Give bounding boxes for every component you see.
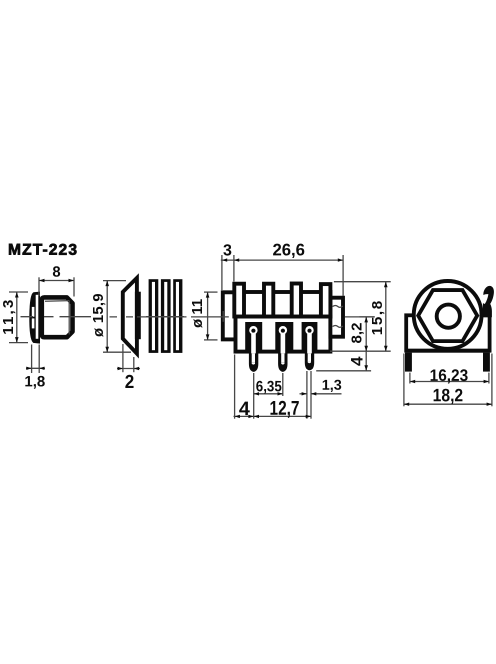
- svg-text:ø 15,9: ø 15,9: [91, 293, 107, 337]
- slot 1 slit: [251, 333, 256, 354]
- rear bushing thread mark upper: [333, 306, 343, 308]
- ring bar 3: [173, 279, 182, 353]
- svg-text:ø 11: ø 11: [189, 299, 206, 328]
- svg-text:4: 4: [239, 398, 250, 420]
- rear bushing: [330, 298, 343, 337]
- dimension 8,2 (center to bottom): [359, 317, 374, 351]
- slot 2 hole: [279, 326, 287, 334]
- nut flange white slit: [36, 295, 39, 339]
- bottom line over circle: [406, 349, 489, 353]
- dimension 8 (nut width): [39, 277, 74, 296]
- dimension 18,2: [404, 354, 492, 407]
- svg-text:26,6: 26,6: [272, 240, 305, 259]
- centerline right segment: [345, 316, 375, 318]
- nut chamfer line top: [45, 300, 70, 303]
- rear bushing thread mark lower: [333, 326, 343, 328]
- nut chamfer line right: [68, 301, 70, 335]
- contact slot 2: [275, 322, 293, 353]
- svg-text:4: 4: [347, 356, 366, 366]
- VIEW 5: front view body rectangle: [406, 315, 489, 350]
- slot 1 hole: [249, 326, 257, 334]
- main body rectangle: [236, 292, 331, 352]
- nut flange white notch upper: [32, 307, 35, 317]
- nut body: [42, 297, 73, 337]
- pin 2: [278, 353, 287, 371]
- VIEW 2: washer cone outline: [123, 278, 137, 354]
- svg-text:16,23: 16,23: [430, 366, 469, 385]
- pin 1: [249, 353, 258, 371]
- centerline main horizontal: [21, 316, 229, 318]
- svg-text:15,8: 15,8: [369, 301, 386, 336]
- VIEW 1: nut flange: [29, 292, 40, 344]
- front circle: [414, 281, 482, 349]
- pin 3: [305, 353, 314, 370]
- clip white slit: [481, 294, 489, 304]
- contact slot 1: [245, 322, 262, 353]
- dimension 1,3: [300, 393, 342, 395]
- lug 2: [264, 284, 273, 317]
- svg-text:1,8: 1,8: [24, 373, 45, 390]
- leg left: [405, 353, 412, 372]
- body mid line: [234, 315, 333, 319]
- dimension 4 (right, pin protrusion): [316, 351, 371, 371]
- clip spring: [483, 286, 494, 317]
- svg-text:8: 8: [52, 265, 60, 281]
- slot 2 slit: [281, 333, 286, 354]
- washer edge filled bar: [135, 292, 141, 340]
- dimension 16,23: [410, 373, 489, 384]
- dimension 11,3 (nut height): [9, 292, 28, 343]
- hex nut: [418, 290, 477, 341]
- nut centerline dashes inside: [0, 0, 1, 1]
- slot 3 hole: [305, 326, 313, 334]
- svg-text:8,2: 8,2: [349, 323, 366, 344]
- svg-text:2: 2: [125, 372, 135, 393]
- lug 4: [321, 284, 331, 316]
- dimension 2 (washer thickness): [117, 344, 140, 372]
- svg-text:12,7: 12,7: [269, 398, 299, 420]
- dimension 4 and 12,7 (bottom): [234, 415, 312, 417]
- lug 1: [234, 284, 244, 317]
- VIEW 3: ring bar 1: [149, 279, 159, 353]
- svg-text:1,3: 1,3: [322, 378, 342, 394]
- dimension 6,35: [254, 393, 283, 395]
- dimension 3 and 26,6 (top): [221, 255, 343, 296]
- svg-text:6,35: 6,35: [256, 378, 282, 395]
- leg right: [483, 353, 490, 372]
- centerline over bars: [146, 316, 184, 318]
- svg-text:MZT-223: MZT-223: [8, 242, 78, 259]
- dimension diameter 11 (bushing): [204, 292, 218, 340]
- svg-text:18,2: 18,2: [433, 385, 464, 405]
- lug 3: [292, 284, 301, 317]
- VIEW 4: front bushing (threaded sleeve): [223, 292, 236, 339]
- front inner circle: [437, 305, 460, 328]
- dimension diameter 15,9 (washer): [103, 281, 131, 353]
- svg-text:3: 3: [223, 242, 232, 259]
- contact slot 3: [302, 322, 318, 353]
- slot 3 slit: [307, 333, 312, 354]
- nut flange white notch lower: [32, 318, 35, 328]
- centerline tick at bushing: [222, 311, 224, 322]
- pin extension lines: [235, 355, 311, 419]
- svg-text:11,3: 11,3: [0, 300, 17, 335]
- dimension 15,8 (right overall height): [330, 282, 391, 352]
- ring bar 2: [161, 279, 171, 353]
- dimension 1,8 (flange thickness): [26, 345, 45, 374]
